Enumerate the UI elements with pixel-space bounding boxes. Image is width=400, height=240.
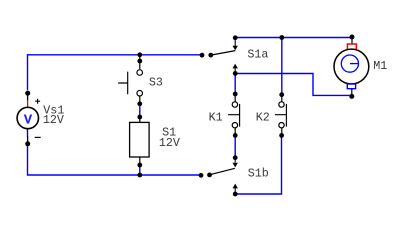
- svg-text:S1a: S1a: [247, 48, 268, 62]
- svg-text:K1: K1: [209, 110, 223, 124]
- svg-text:12V: 12V: [43, 113, 64, 127]
- svg-text:S3: S3: [149, 75, 163, 89]
- svg-text:12V: 12V: [159, 136, 180, 150]
- svg-text:S1b: S1b: [248, 167, 269, 181]
- svg-text:M1: M1: [373, 59, 387, 73]
- svg-text:K2: K2: [256, 110, 270, 124]
- svg-text:V: V: [24, 112, 33, 128]
